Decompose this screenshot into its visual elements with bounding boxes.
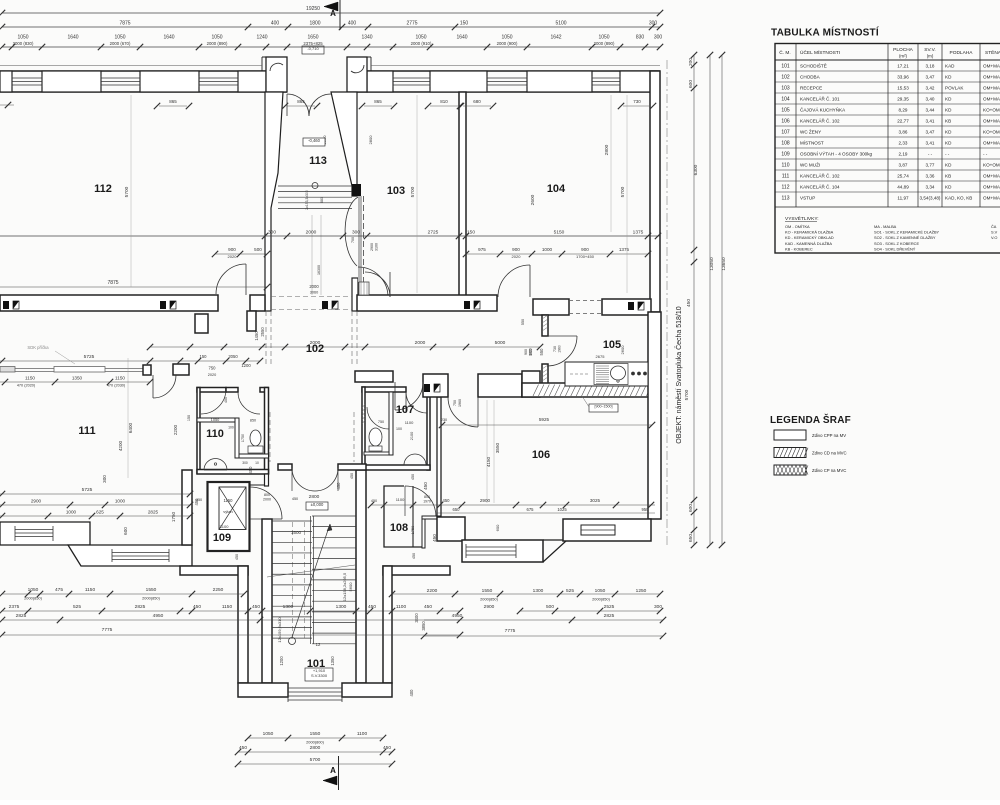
svg-text:SDK příčka: SDK příčka [27,345,49,350]
svg-text:2525: 2525 [604,604,615,610]
svg-text:SV.V.: SV.V. [924,47,935,53]
svg-text:- -: - - [945,152,950,157]
svg-text:2000 (890): 2000 (890) [594,41,615,46]
svg-text:5700: 5700 [410,186,416,197]
svg-text:450: 450 [424,604,432,610]
svg-text:5700: 5700 [684,389,690,400]
svg-text:810: 810 [440,99,448,104]
svg-text:SO4 - SOKL DŘEVĚNÝ: SO4 - SOKL DŘEVĚNÝ [874,246,916,251]
svg-text:5725: 5725 [84,354,95,360]
svg-text:110: 110 [782,163,790,169]
svg-text:6400: 6400 [128,422,133,433]
svg-text:2200: 2200 [427,588,438,594]
svg-text:200: 200 [688,58,694,66]
svg-text:106: 106 [781,119,790,125]
svg-text:450: 450 [368,604,376,610]
svg-text:700: 700 [351,237,355,243]
svg-text:525: 525 [566,588,574,594]
svg-text:S.V: S.V [991,230,998,235]
svg-text:29,35: 29,35 [897,97,909,102]
svg-text:KD: KD [945,185,952,190]
svg-text:1050: 1050 [415,35,426,41]
svg-text:VSTUP: VSTUP [800,196,815,201]
svg-text:1050: 1050 [211,417,220,422]
svg-text:OBJEKT: náměstí Svatopluka Čec: OBJEKT: náměstí Svatopluka Čecha 518/10 [674,306,683,443]
svg-text:1450: 1450 [254,331,259,341]
svg-text:900: 900 [528,348,533,356]
svg-text:OSOBNÍ VÝTAH - 4 OSOBY 300kg: OSOBNÍ VÝTAH - 4 OSOBY 300kg [800,151,873,157]
svg-text:2000(800): 2000(800) [306,740,324,745]
svg-text:900: 900 [228,247,236,252]
svg-text:104: 104 [781,97,790,103]
svg-text:A: A [330,766,336,775]
svg-text:500: 500 [546,604,554,610]
svg-text:300: 300 [649,21,658,27]
svg-text:OM+MA: OM+MA [983,141,1000,146]
svg-text:865: 865 [374,99,382,104]
svg-text:KD: KD [945,75,952,80]
svg-text:150: 150 [187,415,191,421]
svg-text:- -: - - [983,152,988,157]
svg-text:865: 865 [297,99,305,104]
svg-text:2900: 2900 [31,499,42,504]
svg-text:4950: 4950 [452,613,463,619]
svg-text:1100: 1100 [357,731,368,737]
svg-text:750: 750 [453,400,457,406]
svg-text:450: 450 [443,498,451,503]
svg-text:1960: 1960 [558,345,562,353]
svg-text:300: 300 [268,230,276,236]
svg-text:400: 400 [271,21,280,27]
svg-text:1150: 1150 [85,587,96,593]
svg-text:OM - OMÍTKA: OM - OMÍTKA [785,224,810,229]
svg-text:4950: 4950 [153,613,164,619]
svg-text:KD: KD [945,108,952,113]
svg-text:950: 950 [642,507,650,512]
svg-text:1050: 1050 [17,35,28,41]
svg-text:5600: 5600 [348,582,353,592]
svg-text:SCHODIŠTĚ: SCHODIŠTĚ [800,62,827,69]
svg-text:675: 675 [527,507,535,512]
svg-text:650: 650 [453,507,461,512]
svg-text:- -: - - [928,152,933,157]
svg-text:1970: 1970 [423,500,431,504]
svg-text:KD: KD [945,130,952,135]
svg-text:2000 (830): 2000 (830) [13,41,34,46]
svg-text:5000: 5000 [495,340,506,346]
svg-text:2,19: 2,19 [899,152,908,157]
svg-text:105: 105 [603,339,621,351]
svg-text:230: 230 [441,418,447,422]
svg-text:1050: 1050 [595,588,606,594]
svg-text:2825: 2825 [148,510,159,515]
svg-text:2600: 2600 [530,194,536,205]
svg-text:1500: 1500 [291,530,302,535]
svg-text:2825: 2825 [16,613,27,619]
svg-text:3400: 3400 [414,613,419,623]
svg-text:2375: 2375 [9,604,20,610]
svg-text:1300: 1300 [336,604,347,610]
svg-text:3100: 3100 [375,243,379,251]
svg-text:22,77: 22,77 [897,119,909,124]
svg-text:3,34: 3,34 [926,185,935,190]
svg-text:1375: 1375 [619,247,630,252]
svg-text:450: 450 [292,497,298,501]
svg-text:12x158,2x295,5: 12x158,2x295,5 [342,572,347,601]
svg-text:Č. M.: Č. M. [779,49,790,56]
svg-text:3060: 3060 [310,291,318,295]
svg-text:OM+MA,: OM+MA, [983,75,1000,80]
svg-text:2050: 2050 [228,354,238,359]
svg-text:OM+MA: OM+MA [983,97,1000,102]
svg-text:1550: 1550 [310,731,321,737]
svg-text:830: 830 [636,35,645,41]
svg-text:107: 107 [396,404,414,416]
svg-text:2900: 2900 [370,243,374,251]
svg-text:108: 108 [390,522,408,534]
svg-text:680: 680 [320,197,324,203]
svg-text:3,77: 3,77 [926,163,935,168]
svg-text:113: 113 [782,196,790,202]
svg-text:2000: 2000 [415,340,426,346]
svg-text:KB: KB [945,119,951,124]
svg-text:2550: 2550 [260,327,265,337]
svg-text:1800: 1800 [309,21,320,27]
svg-text:KD: KD [945,163,952,168]
svg-text:450: 450 [252,604,260,610]
svg-text:112: 112 [782,185,790,191]
svg-text:Zdivo CP na MVC: Zdivo CP na MVC [812,468,846,473]
svg-text:SO1 - SOKL Z KERAMICKÉ DLAŽBY: SO1 - SOKL Z KERAMICKÉ DLAŽBY [874,230,940,235]
svg-text:KO+OM,: KO+OM, [983,163,1000,168]
svg-text:300: 300 [102,475,107,483]
svg-text:(m²): (m²) [899,54,908,59]
svg-text:V.O: V.O [991,235,997,240]
svg-text:525: 525 [73,604,81,610]
svg-text:470 (2020): 470 (2020) [17,384,36,388]
svg-text:450: 450 [686,299,692,307]
svg-text:KO+OM,: KO+OM, [983,108,1000,113]
svg-text:19250: 19250 [306,6,320,12]
svg-text:2000(850): 2000(850) [142,596,160,601]
svg-text:WC MUŽI: WC MUŽI [800,161,820,168]
svg-text:ČA: ČA [991,224,997,229]
svg-text:600: 600 [688,504,694,512]
svg-text:450: 450 [383,745,391,751]
svg-text:CHODBA: CHODBA [800,75,821,80]
svg-text:10: 10 [255,461,259,465]
svg-text:2800: 2800 [310,745,321,751]
svg-text:450: 450 [194,498,199,506]
svg-text:OM+MA: OM+MA [983,64,1000,69]
svg-text:2900: 2900 [480,498,491,503]
svg-text:450: 450 [432,534,437,542]
svg-text:POVLAK: POVLAK [945,86,964,91]
svg-text:Zdivo CPP na MV: Zdivo CPP na MV [812,433,846,438]
svg-text:3850: 3850 [421,621,426,631]
svg-text:1100: 1100 [396,497,405,502]
svg-text:KANCELÁŘ Č. 104: KANCELÁŘ Č. 104 [800,183,840,190]
svg-text:300: 300 [654,604,662,610]
svg-text:2100: 2100 [410,432,414,440]
svg-text:KB - KOBEREC: KB - KOBEREC [785,246,813,251]
svg-text:625: 625 [96,510,104,515]
svg-text:3,36: 3,36 [926,174,935,179]
svg-text:1640: 1640 [456,35,467,41]
svg-text:KAD: KAD [945,64,955,69]
svg-text:A: A [330,9,336,18]
svg-text:12: 12 [316,642,321,647]
svg-text:OM+MA: OM+MA [983,174,1000,179]
svg-text:106: 106 [532,449,550,461]
svg-text:865: 865 [169,99,177,104]
svg-text:1240: 1240 [256,35,267,41]
svg-text:SO3 - SOKL Z KOBERCE: SO3 - SOKL Z KOBERCE [874,241,919,246]
svg-text:2000: 2000 [306,230,317,236]
svg-text:1000: 1000 [542,247,553,252]
svg-text:450: 450 [411,474,415,480]
svg-text:1150: 1150 [115,376,125,381]
svg-text:3550: 3550 [495,442,500,453]
svg-text:1340: 1340 [361,35,372,41]
svg-text:600: 600 [495,524,500,531]
svg-text:111: 111 [782,174,790,180]
svg-text:5100: 5100 [555,21,566,27]
svg-text:13650: 13650 [721,257,727,271]
svg-text:1050: 1050 [263,731,274,737]
svg-text:1550: 1550 [482,588,493,594]
svg-text:1100: 1100 [405,420,414,425]
svg-text:výtah: výtah [223,509,233,514]
svg-text:650: 650 [688,534,694,542]
svg-text:2825: 2825 [604,613,615,619]
svg-text:1350: 1350 [72,376,83,381]
svg-text:550: 550 [521,319,525,325]
svg-text:-0,460: -0,460 [308,138,321,143]
svg-text:2800: 2800 [309,494,320,500]
svg-text:11,97: 11,97 [897,196,909,201]
svg-text:2675: 2675 [596,354,606,359]
svg-text:2020: 2020 [512,254,522,259]
svg-text:16300: 16300 [317,265,321,275]
svg-text:100: 100 [228,426,234,430]
svg-text:1250: 1250 [636,588,647,594]
svg-text:1050: 1050 [114,35,125,41]
svg-text:1150: 1150 [222,604,233,610]
svg-text:2250: 2250 [213,587,224,593]
svg-text:2020: 2020 [208,373,216,377]
svg-text:104: 104 [547,183,566,195]
svg-text:1300: 1300 [533,588,544,594]
svg-text:OM+MA,: OM+MA, [983,196,1000,201]
svg-text:102: 102 [306,343,324,355]
svg-text:2200: 2200 [173,424,178,435]
svg-text:112: 112 [94,183,112,195]
svg-text:400: 400 [409,689,414,697]
svg-text:2000(850): 2000(850) [480,597,498,602]
svg-text:ČAJOVÁ KUCHYŇKA: ČAJOVÁ KUCHYŇKA [800,107,846,113]
svg-text:ÚČEL MÍSTNOSTI: ÚČEL MÍSTNOSTI [800,49,840,56]
svg-text:111: 111 [78,425,95,437]
svg-text:2000: 2000 [309,284,319,289]
svg-text:25,74: 25,74 [897,174,909,179]
svg-text:101: 101 [781,64,790,70]
svg-text:2000: 2000 [263,498,271,502]
svg-text:5150: 5150 [554,230,565,236]
svg-text:KANCELÁŘ Č. 101: KANCELÁŘ Č. 101 [800,95,840,102]
svg-text:KAD - KAMENNÁ DLAŽBA: KAD - KAMENNÁ DLAŽBA [785,241,832,246]
svg-text:OM+MA: OM+MA [983,86,1000,91]
svg-text:1050: 1050 [598,35,609,41]
svg-text:3,47: 3,47 [926,75,935,80]
svg-text:750: 750 [209,366,217,371]
svg-text:730: 730 [633,99,641,104]
svg-text:3,47: 3,47 [926,130,935,135]
svg-text:3,44: 3,44 [926,108,935,113]
svg-text:102: 102 [781,75,790,81]
svg-text:KANCELÁŘ Č. 102: KANCELÁŘ Č. 102 [800,117,840,124]
svg-text:3,41: 3,41 [926,119,935,124]
svg-text:1640: 1640 [163,35,174,41]
svg-text:5925: 5925 [539,417,550,422]
svg-text:2725: 2725 [428,230,439,236]
svg-text:KB: KB [945,174,951,179]
svg-text:3,40: 3,40 [926,97,935,102]
svg-text:1050: 1050 [211,35,222,41]
svg-text:450: 450 [239,745,247,751]
svg-text:113: 113 [309,155,327,167]
svg-text:800: 800 [424,495,430,499]
svg-text:150: 150 [200,354,208,359]
svg-text:150: 150 [460,21,469,27]
svg-text:3,54(3,48): 3,54(3,48) [920,196,941,201]
svg-text:850: 850 [250,419,256,423]
svg-text:1642: 1642 [550,35,561,41]
svg-text:1650: 1650 [307,35,318,41]
svg-text:450: 450 [350,473,354,479]
svg-text:KD: KD [945,141,952,146]
svg-text:2800: 2800 [604,144,610,155]
svg-text:470 (2030): 470 (2030) [107,384,126,388]
svg-text:550: 550 [539,348,544,356]
svg-text:3,42: 3,42 [926,86,935,91]
svg-text:450: 450 [336,482,341,490]
svg-text:2775: 2775 [406,21,417,27]
svg-text:1150: 1150 [223,498,233,503]
svg-text:TABULKA MÍSTNOSTÍ: TABULKA MÍSTNOSTÍ [771,26,879,39]
svg-text:400: 400 [348,21,357,27]
svg-text:OM+MA: OM+MA [983,119,1000,124]
svg-text:2020: 2020 [228,254,238,259]
svg-text:3025: 3025 [590,498,601,503]
svg-text:109: 109 [213,532,231,544]
svg-text:109: 109 [781,152,790,158]
svg-text:3,41: 3,41 [926,141,935,146]
svg-text:900: 900 [581,247,589,252]
svg-text:8,29: 8,29 [899,108,908,113]
svg-text:2000 (890): 2000 (890) [207,41,228,46]
svg-text:110: 110 [206,428,224,440]
svg-text:2000(850): 2000(850) [592,597,610,602]
svg-text:5725: 5725 [82,487,93,493]
svg-text:1050: 1050 [501,35,512,41]
svg-text:5700: 5700 [124,186,130,197]
svg-text:1025: 1025 [557,507,567,512]
svg-text:Zdivo CD na MVC: Zdivo CD na MVC [812,451,847,456]
svg-text:3,18: 3,18 [926,64,935,69]
svg-text:PLOCHA: PLOCHA [893,47,914,53]
svg-text:1200: 1200 [241,363,251,368]
svg-text:7775: 7775 [102,627,113,633]
svg-text:2000 (910): 2000 (910) [411,41,432,46]
svg-text:1550: 1550 [146,587,157,593]
svg-text:(m): (m) [927,54,934,59]
svg-text:44,89: 44,89 [897,185,909,190]
svg-text:730: 730 [553,346,557,352]
svg-text:4200: 4200 [118,440,123,451]
svg-text:7775: 7775 [505,628,516,634]
svg-text:105: 105 [781,108,790,114]
svg-text:2825: 2825 [135,604,146,610]
svg-text:WC ŽENY: WC ŽENY [800,128,821,135]
svg-text:[900~1500]: [900~1500] [594,405,612,409]
svg-text:450: 450 [193,604,201,610]
svg-text:KANCELÁŘ Č. 102: KANCELÁŘ Č. 102 [800,172,840,179]
svg-text:3,87: 3,87 [899,163,908,168]
svg-text:7875: 7875 [107,280,118,286]
svg-text:450: 450 [423,482,428,490]
svg-text:KD: KD [945,97,952,102]
svg-text:4150: 4150 [486,456,491,467]
svg-text:2000(850): 2000(850) [24,596,42,601]
svg-text:KO - KERAMICKÁ DLAŽBA: KO - KERAMICKÁ DLAŽBA [785,230,834,235]
svg-text:1300: 1300 [283,604,294,610]
svg-text:LEGENDA ŠRAF: LEGENDA ŠRAF [770,413,851,426]
svg-text:PODLAHA: PODLAHA [950,50,974,56]
svg-text:2000 (900): 2000 (900) [497,41,518,46]
svg-text:450: 450 [248,466,253,474]
svg-text:400: 400 [224,397,228,403]
svg-text:900: 900 [512,247,520,252]
svg-text:1960: 1960 [458,399,462,407]
svg-text:150: 150 [467,230,475,236]
svg-text:1640: 1640 [67,35,78,41]
svg-text:33,96: 33,96 [897,75,909,80]
svg-text:MÍSTNOST: MÍSTNOST [800,140,824,146]
svg-text:600: 600 [688,80,694,88]
svg-text:1750: 1750 [241,434,245,442]
svg-text:15,53: 15,53 [897,86,909,91]
svg-text:1200: 1200 [279,656,284,666]
svg-text:2375+825: 2375+825 [303,41,323,46]
svg-text:475: 475 [55,587,63,593]
svg-text:RECEPCE: RECEPCE [800,86,822,91]
svg-text:2900: 2900 [484,604,495,610]
svg-text:3,86: 3,86 [899,130,908,135]
svg-text:2,33: 2,33 [899,141,908,146]
svg-text:680: 680 [473,99,481,104]
svg-text:450: 450 [412,553,416,559]
svg-text:12x159,6x310: 12x159,6x310 [277,617,282,643]
svg-text:800: 800 [264,493,270,497]
svg-text:101: 101 [307,658,325,670]
svg-text:17,21: 17,21 [897,64,909,69]
svg-text:S.V.3300: S.V.3300 [311,673,328,678]
svg-text:5700: 5700 [620,186,626,197]
svg-text:1750: 1750 [171,511,176,522]
svg-text:13050: 13050 [709,257,715,271]
svg-text:1700+450: 1700+450 [576,254,595,259]
